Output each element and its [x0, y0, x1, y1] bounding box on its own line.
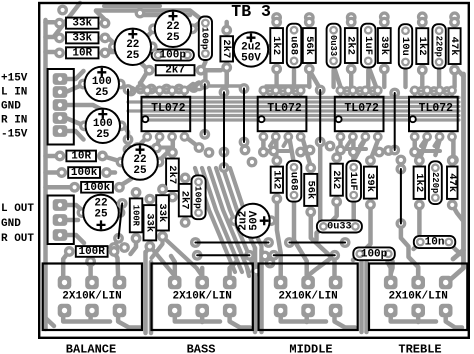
svg-text:25: 25: [96, 129, 110, 141]
wire IC pin stub: [287, 90, 290, 97]
svg-text:1k2: 1k2: [270, 170, 282, 189]
wire pot bottoms stubs: [91, 311, 419, 322]
svg-text:10R: 10R: [72, 47, 92, 59]
svg-text:100k: 100k: [84, 182, 111, 194]
wire rail to VR1: [46, 318, 55, 326]
capacitor C14 10u: [399, 24, 412, 68]
wire U1 pin4 up: [185, 84, 194, 90]
svg-text:33k: 33k: [156, 203, 168, 222]
resistor R11 56k: [304, 17, 315, 28]
svg-text:39k: 39k: [378, 36, 390, 55]
wire R18 down: [152, 236, 203, 276]
node pads mid cluster: [247, 157, 258, 168]
wire bus left tails: [128, 102, 144, 111]
jumper wire W9: [190, 237, 201, 248]
resistor R3 10R: [54, 47, 65, 58]
capacitor C11 u68: [287, 24, 302, 68]
capacitor C12 0u33: [327, 24, 341, 68]
capacitor C16 100p: [192, 175, 206, 219]
wire VR2 bottom run: [175, 311, 250, 328]
svg-text:10u: 10u: [399, 37, 411, 56]
node pads bottom cluster: [260, 251, 271, 262]
jumper wire W12: [268, 250, 279, 261]
node pads top bus vias: [57, 5, 68, 16]
svg-text:25: 25: [95, 87, 109, 99]
resistor R12 2k2: [346, 17, 357, 28]
wire U1 pin6 stub: [157, 137, 160, 147]
svg-text:100R: 100R: [78, 246, 105, 258]
wire U1 pin7 stub: [171, 137, 176, 151]
svg-text:TREBLE: TREBLE: [398, 343, 441, 354]
wire bundle diagonal: [216, 168, 256, 272]
wire diag 0u33 to U3: [334, 66, 341, 87]
wire C18 to C20: [354, 201, 355, 224]
wire diag 1uF to U3: [368, 66, 376, 87]
resistor R17 2k7: [180, 173, 191, 184]
jumper wire W10: [284, 237, 295, 248]
wire under-U1 link: [138, 146, 171, 150]
wire C1 to C10: [191, 23, 203, 29]
svg-text:1k2: 1k2: [413, 173, 425, 192]
svg-text:0u33: 0u33: [328, 35, 338, 56]
wire stub to IC row: [452, 70, 456, 87]
wire R1 to top bus: [96, 11, 107, 22]
node pads below U1: [132, 142, 143, 153]
wire R8 left link: [141, 63, 149, 88]
resistor R25 1k2: [414, 155, 425, 166]
svg-text:25: 25: [166, 32, 180, 44]
wire R26 right: [452, 205, 462, 220]
svg-text:47k: 47k: [446, 173, 458, 192]
resistor R19 33k: [144, 194, 155, 205]
wire under-U2 diag: [270, 137, 289, 146]
svg-text:56k: 56k: [304, 180, 316, 199]
op-amp U2 TL072: [259, 86, 269, 96]
wire IC pin stub: [299, 90, 302, 97]
wire IC pin stub: [145, 90, 148, 97]
wire C21 left link: [414, 242, 421, 249]
wire R6 to C5: [118, 179, 132, 187]
node pads right cluster: [305, 145, 316, 156]
wire U1 pin8 stub: [186, 137, 199, 147]
wire jumper top link: [192, 84, 244, 87]
svg-text:L IN: L IN: [1, 87, 27, 99]
wire VR4 top stubs: [388, 262, 419, 276]
svg-text:2X10K/LIN: 2X10K/LIN: [278, 291, 337, 303]
potentiometer VR3 2X10K/LIN: [274, 276, 288, 290]
svg-text:25: 25: [133, 165, 147, 177]
wire C4 to W1: [124, 125, 129, 139]
capacitor C10 100p: [199, 17, 212, 61]
node pads above U4: [416, 86, 426, 96]
wire signal bus: [144, 114, 460, 117]
wire stub to IC row: [366, 70, 370, 87]
resistor R4 10R: [55, 151, 66, 162]
svg-text:+15V: +15V: [1, 73, 28, 85]
wire IC pin stub: [376, 90, 379, 97]
wire row above U3: [337, 90, 378, 93]
wire C8 right stub: [270, 43, 277, 49]
wire VR1 bottom run: [63, 311, 140, 328]
wire row above U2: [260, 90, 301, 93]
capacitor C22 100p: [353, 247, 395, 260]
wire VR1-VR2 gap verticals: [146, 252, 152, 333]
wire VR2-VR3 gap verticals: [255, 248, 262, 332]
wire rail stub R5: [46, 170, 62, 175]
svg-text:50V: 50V: [249, 210, 261, 230]
wire bundle diagonal: [202, 168, 242, 272]
jumper wire W2: [199, 79, 210, 90]
resistor R23 2k2: [331, 152, 342, 163]
wire R9 bottom stub: [202, 68, 227, 87]
op-amp U3 TL072: [336, 86, 346, 96]
resistor R16 2k7: [167, 147, 178, 158]
svg-text:2k2: 2k2: [345, 36, 357, 55]
resistor R1 33k: [54, 18, 65, 29]
wire IC pin stub: [438, 90, 441, 97]
wire R23 to C20: [330, 202, 337, 223]
wire IC pin stub: [262, 90, 265, 97]
svg-text:TL072: TL072: [151, 102, 186, 115]
wire L-OUT stub: [66, 205, 83, 211]
svg-text:1k2: 1k2: [416, 37, 428, 56]
wire VR3 mid diag: [308, 255, 335, 276]
wire diag 56k to W5: [309, 70, 320, 89]
svg-text:50V: 50V: [241, 52, 261, 64]
jumper wire W7: [396, 164, 407, 175]
wire W8 to R7: [114, 238, 119, 247]
wire rail stub R2: [46, 35, 55, 40]
potentiometer VR1 2X10K/LIN: [58, 276, 72, 290]
capacitor C1 22/25: [148, 23, 159, 34]
wire stub to IC row: [349, 70, 353, 87]
resistor R13 39k: [379, 17, 390, 28]
wire C5 to R16: [158, 154, 166, 162]
connector J2 (outputs): [53, 199, 68, 211]
wire C22 right link: [388, 254, 393, 274]
wire under-U2 link: [263, 149, 289, 153]
jumper wire W3: [219, 87, 230, 98]
resistor R9 2k7: [221, 25, 232, 36]
resistor R10 1k2: [271, 17, 282, 28]
node pads above U1: [126, 86, 137, 97]
wire IC pin stub: [413, 90, 416, 97]
wire C3 to W1: [123, 85, 129, 90]
wire rail stub R1: [46, 20, 55, 25]
wire R7 to VR1 right: [114, 251, 118, 276]
wire C10 to R8: [202, 54, 206, 71]
capacitor C18 1uF: [346, 161, 361, 202]
wire stub to top pad: [420, 18, 424, 22]
wire R7 to VR1 left: [63, 251, 69, 276]
wire rail stub R6: [46, 185, 75, 190]
wire row above U4: [411, 90, 452, 93]
wire signal bus: [144, 118, 460, 121]
svg-text:25: 25: [126, 50, 140, 62]
wire under-U4 link: [415, 149, 440, 153]
wire stub to IC row: [420, 70, 424, 87]
svg-text:220p: 220p: [434, 36, 444, 57]
wire bundle exit: [247, 268, 249, 276]
svg-text:2k7: 2k7: [166, 165, 178, 184]
wire +15V stub: [66, 71, 84, 79]
svg-text:TL072: TL072: [344, 102, 379, 115]
svg-text:10R: 10R: [71, 150, 91, 162]
wire R-IN stub: [66, 118, 82, 125]
wire stub to IC row: [203, 70, 207, 87]
wire IC pin stub: [170, 90, 173, 97]
svg-text:100p: 100p: [361, 248, 388, 260]
svg-text:u68: u68: [288, 36, 300, 55]
wire signal bus: [144, 105, 460, 108]
capacitor C6 22/25: [77, 207, 88, 218]
svg-text:2k7: 2k7: [165, 65, 185, 77]
capacitor C7 100p: [152, 49, 194, 60]
wire C2 to C7: [151, 47, 160, 55]
wire C20 right trace: [318, 141, 323, 220]
connector J1 (power and inputs): [53, 73, 68, 85]
wire GND stub: [66, 105, 107, 113]
wire right rail: [453, 74, 464, 259]
wire R20 down: [131, 238, 137, 254]
wire R25 down: [417, 205, 422, 234]
wire R21 to VR3: [277, 199, 281, 276]
wire bundle diagonal: [195, 168, 235, 272]
wire under-U4 diag: [421, 137, 441, 146]
wire VR2 top stubs: [171, 256, 236, 276]
svg-text:0u33: 0u33: [327, 221, 351, 232]
svg-text:TL072: TL072: [267, 102, 302, 115]
wire top bus branch: [140, 13, 190, 18]
op-amp U4 TL072: [410, 86, 420, 96]
wire W1 lower link: [126, 140, 131, 149]
wire IC pin stub: [158, 90, 161, 97]
wire top feed diagonal: [54, 3, 80, 37]
wire under-U3 link: [341, 147, 367, 151]
capacitor C5 22/25: [116, 157, 127, 168]
wire signal bus: [144, 100, 460, 103]
capacitor C8 2u2/50V: [227, 44, 238, 55]
svg-text:39k: 39k: [364, 173, 376, 192]
wire IC pin stub: [450, 90, 453, 97]
wire stub to IC row: [274, 70, 278, 87]
node pads top lollipops: [271, 12, 282, 23]
svg-text:R IN: R IN: [1, 115, 27, 127]
wire stub to IC row: [382, 70, 386, 87]
svg-text:56k: 56k: [303, 36, 315, 55]
resistor R21 1k2: [271, 155, 282, 166]
wire stub to IC row: [292, 70, 296, 87]
wire C6 to W8: [119, 206, 123, 213]
wire W7 to VR4: [401, 224, 418, 277]
svg-text:BALANCE: BALANCE: [66, 343, 116, 354]
resistor R24 39k: [365, 155, 376, 166]
capacitor C17 u68: [287, 161, 302, 202]
wire C20 left link: [317, 227, 325, 241]
capacitor C19 220p: [429, 161, 442, 204]
wire rail stub R4: [46, 154, 60, 159]
wire R22 to VR3: [311, 212, 335, 276]
wire C8 left stub: [226, 47, 233, 52]
svg-text:GND: GND: [1, 101, 21, 113]
node pads above U3: [342, 86, 352, 96]
capacitor C3 100/25: [78, 79, 89, 90]
wire bundle diagonal: [209, 168, 249, 272]
wire VR3 bottom run: [281, 311, 355, 328]
wire R-OUT stub: [66, 235, 84, 243]
svg-text:100p: 100p: [160, 50, 187, 62]
wire stub to top pad: [274, 18, 278, 22]
wire stub to top pad: [452, 18, 456, 22]
svg-text:2X10K/LIN: 2X10K/LIN: [388, 291, 447, 303]
resistor R8 2k7: [144, 65, 155, 76]
resistor R20 100R: [131, 187, 142, 198]
wire R5 stub: [107, 170, 116, 175]
capacitor C20 0u33: [317, 220, 362, 232]
wire IC pin stub: [364, 90, 367, 97]
wire bundle diagonal 6: [230, 168, 262, 268]
wire R24 down: [363, 205, 371, 252]
resistor R6 100k: [69, 182, 80, 193]
svg-text:R OUT: R OUT: [1, 233, 34, 245]
svg-text:33k: 33k: [143, 213, 155, 232]
svg-text:1uF: 1uF: [347, 172, 359, 191]
capacitor C4 100/25: [79, 120, 90, 131]
svg-text:100k: 100k: [71, 167, 98, 179]
svg-text:100R: 100R: [131, 205, 141, 227]
svg-text:25: 25: [94, 209, 108, 221]
wire R19 down: [146, 246, 175, 276]
capacitor C15 220p: [432, 24, 445, 68]
resistor R18 33k: [157, 184, 168, 195]
capacitor C21 10n: [414, 236, 456, 248]
wire -15V stub: [66, 131, 84, 140]
svg-text:u68: u68: [288, 172, 300, 191]
svg-text:BASS: BASS: [187, 343, 216, 354]
wire U1 pin5 stub: [138, 137, 148, 147]
jumper wire W1: [123, 84, 134, 95]
potentiometer VR4 2X10K/LIN: [384, 276, 398, 290]
wire left power rail: [43, 20, 48, 329]
wire VR4 bottom run: [391, 311, 462, 328]
wire stub to top pad: [349, 18, 353, 22]
wire row to C10: [194, 83, 199, 88]
svg-text:47k: 47k: [448, 37, 460, 56]
resistor R22 56k: [305, 163, 316, 174]
svg-text:GND: GND: [1, 218, 21, 230]
svg-text:33k: 33k: [72, 32, 92, 44]
wire signal bus: [144, 96, 460, 99]
wire U4 pin stubs: [415, 137, 454, 160]
svg-text:1uF: 1uF: [362, 36, 374, 55]
wire stub to IC row: [307, 70, 311, 87]
wire IC pin stub: [274, 90, 277, 97]
capacitor C2 22/25: [108, 41, 119, 52]
svg-text:2k7: 2k7: [220, 39, 232, 58]
wire under-U3 diag: [347, 137, 366, 146]
jumper wire W11: [192, 250, 203, 261]
jumper wire W4: [239, 83, 250, 94]
svg-text:100p: 100p: [199, 27, 210, 50]
wire stub to top pad: [307, 18, 311, 22]
wire stub to IC row: [403, 70, 407, 87]
wire rail stub R3: [46, 50, 55, 55]
svg-text:33k: 33k: [72, 18, 92, 30]
wire stub to IC row: [224, 70, 228, 87]
wire top bus b: [104, 4, 160, 8]
svg-text:TB 3: TB 3: [231, 2, 271, 21]
wire U3 pin stubs: [341, 137, 380, 160]
wire C1 left link: [148, 29, 156, 42]
wire bundle diagonal 5: [223, 168, 255, 270]
wire VR3-VR4 gap verticals: [362, 252, 367, 332]
resistor R14 1k2: [417, 17, 428, 28]
resistor R15 47k: [449, 17, 460, 28]
wire GND2 stub: [66, 218, 78, 223]
wire IC pin stub: [425, 90, 428, 97]
svg-text:1k2: 1k2: [270, 36, 282, 55]
potentiometer VR2 2X10K/LIN: [168, 276, 182, 290]
resistor R26 47k: [447, 155, 458, 166]
wire R4 to C5: [103, 156, 122, 162]
wire IC pin stub: [339, 90, 342, 97]
op-amp U1 TL072: [142, 86, 152, 96]
capacitor C9 2u2/50V: [229, 215, 240, 226]
wire right rail lower: [446, 250, 464, 281]
wire stub to top pad: [382, 18, 386, 22]
svg-text:2X10K/LIN: 2X10K/LIN: [62, 291, 121, 303]
wire top bus: [96, 11, 199, 18]
wire L-IN stub: [66, 85, 82, 92]
svg-text:L OUT: L OUT: [1, 203, 34, 215]
wire IC pin stub: [351, 90, 354, 97]
wire right corner: [455, 67, 464, 76]
wire U2 pin stubs: [263, 137, 310, 166]
svg-text:-15V: -15V: [1, 129, 28, 141]
wire R9 top stub: [224, 22, 229, 30]
svg-text:2k7: 2k7: [179, 191, 191, 210]
svg-text:2X10K/LIN: 2X10K/LIN: [172, 291, 231, 303]
wire C17 to VR3: [294, 201, 307, 276]
resistor R5 100k: [56, 167, 67, 178]
wire C22 left link: [353, 254, 360, 260]
wire stub to IC row: [331, 70, 335, 87]
capacitor C13 1uF: [361, 24, 376, 68]
svg-text:10n: 10n: [425, 237, 445, 249]
node pads above U2: [265, 86, 275, 96]
wire C21 right link: [448, 242, 462, 255]
wire R2 to C2: [107, 37, 117, 46]
wire R3 stub: [107, 50, 114, 55]
svg-text:2k2: 2k2: [330, 170, 342, 189]
wire IC pin stub: [183, 90, 186, 97]
wire signal bus: [144, 109, 460, 112]
wire VR1 mid stub: [88, 265, 93, 276]
resistor R7 100R: [64, 246, 75, 257]
svg-text:100p: 100p: [193, 186, 204, 209]
jumper wire W5: [315, 85, 326, 96]
wire upper link h: [266, 84, 310, 87]
svg-text:220p: 220p: [430, 172, 440, 193]
svg-text:TL072: TL072: [419, 102, 454, 115]
jumper wire W8: [117, 198, 128, 209]
wire U1 pin1 up: [140, 83, 147, 90]
wire stub to IC row: [437, 70, 441, 87]
wire pad row above U1: [133, 87, 194, 90]
resistor R2 33k: [54, 32, 65, 43]
jumper wire W6: [389, 88, 400, 99]
svg-text:MIDDLE: MIDDLE: [289, 343, 332, 354]
